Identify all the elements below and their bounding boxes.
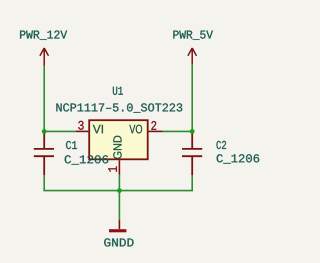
pin 2 (VO) [149,130,163,132]
pin 1 (GND) [118,160,120,174]
wire: bottom junction down to ground [118,191,120,220]
label PWR_12V [20,30,67,39]
reference U1 [113,87,123,95]
pin name GND (rotated) [113,136,121,159]
power symbol PWR_12V arrow [40,48,49,66]
wire: C2 bottom lead down [191,175,193,191]
pin 3 (VI) [76,130,88,132]
label PWR_5V [173,31,213,40]
wire: C1 bottom lead down [43,175,45,191]
value C_1206 (right) [217,154,260,163]
pin number 1 (rotated) [108,166,117,171]
wire: pin 2 to right junction [163,130,193,132]
power symbol PWR_5V arrow [188,48,197,64]
label GNDD [104,238,133,246]
junction node left [42,129,47,134]
reference C2 [216,141,226,149]
wire: left horizontal junction to pin 3 [44,130,76,132]
value C_1206 (left) [65,155,109,164]
pin number 3 [78,121,83,130]
pin number 2 [151,121,156,130]
wire: bottom horizontal rail [43,190,193,192]
wire: left vertical from PWR_12V to left junction [43,66,45,132]
wire: right vertical from PWR_5V to right junction [191,64,193,131]
pin name VO [129,125,142,134]
pin name VI [93,125,103,133]
capacitor C1 [34,131,54,175]
junction node right [190,129,195,134]
capacitor C2 [182,131,202,175]
junction node bottom [117,188,122,193]
ground GNDD symbol [118,220,120,229]
wire: pin 1 to bottom rail [118,175,120,191]
regulator U1 body [89,120,148,159]
value NCP1117-5.0_SOT223 [56,103,182,112]
reference C1 [66,141,77,149]
